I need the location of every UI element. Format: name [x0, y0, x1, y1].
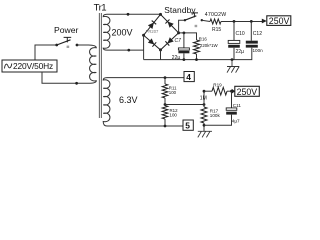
capacitor C11 (electrolytic): [231, 91, 233, 108]
terminal box 5: [183, 120, 193, 130]
wire: R16 bottom to bus: [196, 54, 198, 60]
wire: ground bus: [144, 48, 252, 60]
resistor R16 zigzag: [194, 40, 200, 54]
arrow to 250V output (bottom): [232, 89, 236, 94]
svg-text:C7: C7: [175, 38, 182, 44]
resistor R11: [164, 78, 166, 84]
svg-text:22µ: 22µ: [172, 55, 181, 61]
wire: 200V top lead to bridge: [107, 13, 161, 15]
junction dot bottom lead: [127, 49, 130, 52]
svg-text:R19: R19: [213, 83, 222, 88]
transformer 6.3V secondary winding: [103, 78, 110, 126]
output box 250V (bottom): [235, 86, 259, 96]
wire: standby to R15: [202, 20, 210, 21]
arrow to 250V output (top): [262, 19, 267, 24]
svg-text:1M: 1M: [200, 96, 207, 102]
svg-text:250V: 250V: [269, 16, 290, 26]
capacitor C7 (electrolytic): [183, 33, 185, 48]
transformer Tr1 primary winding: [89, 45, 97, 83]
diode D upper-right of bridge: [168, 22, 174, 28]
svg-text:100: 100: [170, 112, 178, 117]
svg-text:4µ7: 4µ7: [232, 119, 240, 124]
resistor R12: [162, 106, 168, 120]
svg-text:100k: 100k: [210, 113, 221, 118]
svg-text:Tr1: Tr1: [94, 2, 107, 13]
wire: right vertex riser to standby switch: [179, 20, 185, 33]
svg-text:200V: 200V: [112, 28, 133, 38]
wire: primary bottom lead: [42, 72, 89, 83]
capacitor C10 (electrolytic): [233, 21, 235, 40]
resistor R15 zigzag: [210, 19, 221, 24]
junction dots on + rail: [233, 20, 236, 23]
terminal box 4: [184, 72, 194, 82]
svg-text:C11: C11: [233, 103, 242, 108]
switch Standby: [184, 19, 186, 21]
junction on primary bottom lead: [75, 82, 78, 85]
output box 250V (top): [267, 16, 291, 26]
svg-text:5: 5: [185, 121, 190, 131]
transformer 200V secondary winding: [103, 14, 110, 50]
wire: bottom vertex drop to ground bus: [160, 50, 162, 60]
bridge vertex dots: [159, 13, 162, 16]
wire: 6.3V top lead to terminal 4: [107, 77, 184, 79]
switch Power: [55, 44, 58, 47]
svg-text:220k*1W: 220k*1W: [200, 43, 219, 48]
diode D lower-left of bridge: [148, 38, 154, 44]
diode D lower-right of bridge: [167, 37, 173, 43]
svg-text:100: 100: [169, 90, 177, 95]
resistor R19: [204, 90, 212, 92]
svg-text:250V: 250V: [237, 87, 258, 97]
AC source box 220V/50Hz: [2, 60, 57, 72]
svg-text:C10: C10: [236, 31, 245, 37]
sine symbol: [5, 64, 12, 69]
diode D upper-left of bridge: [148, 23, 154, 30]
bridge rectifier FR207 outline: [144, 14, 179, 50]
svg-text:22µ: 22µ: [236, 49, 245, 55]
svg-text:Power: Power: [54, 25, 78, 35]
svg-text:100n: 100n: [253, 48, 264, 53]
wire: mains box top lead: [35, 45, 57, 60]
transformer core: [99, 13, 101, 118]
wire: R15 to output rail: [221, 21, 262, 23]
svg-text:6.3V: 6.3V: [119, 95, 138, 105]
wire: 6.3V bottom lead to terminal 5: [107, 125, 183, 127]
svg-text:4: 4: [186, 72, 191, 82]
svg-text:R16: R16: [199, 37, 208, 42]
wire: 200V bottom lead: [107, 49, 144, 51]
svg-text:R15: R15: [212, 27, 221, 33]
resistor R17: [201, 107, 207, 123]
svg-text:C12: C12: [253, 31, 262, 37]
wire: R11/R12 junction to R17/R19 node: [165, 104, 204, 106]
wire: left vertex drop to ground bus: [143, 35, 145, 59]
ground symbol (main bus): [231, 58, 234, 61]
wire: R17/R19 vertical: [203, 91, 205, 107]
junction dot top lead: [127, 13, 130, 16]
ground symbol (R17/C11): [198, 131, 212, 137]
svg-text:FR207: FR207: [146, 29, 159, 34]
wire: right vertex to C7/R16: [179, 33, 197, 40]
svg-text:220V/50Hz: 220V/50Hz: [13, 61, 53, 71]
capacitor C12: [250, 21, 252, 40]
wire: switch to primary: [77, 44, 89, 46]
svg-text:470Ω2W: 470Ω2W: [205, 12, 227, 18]
